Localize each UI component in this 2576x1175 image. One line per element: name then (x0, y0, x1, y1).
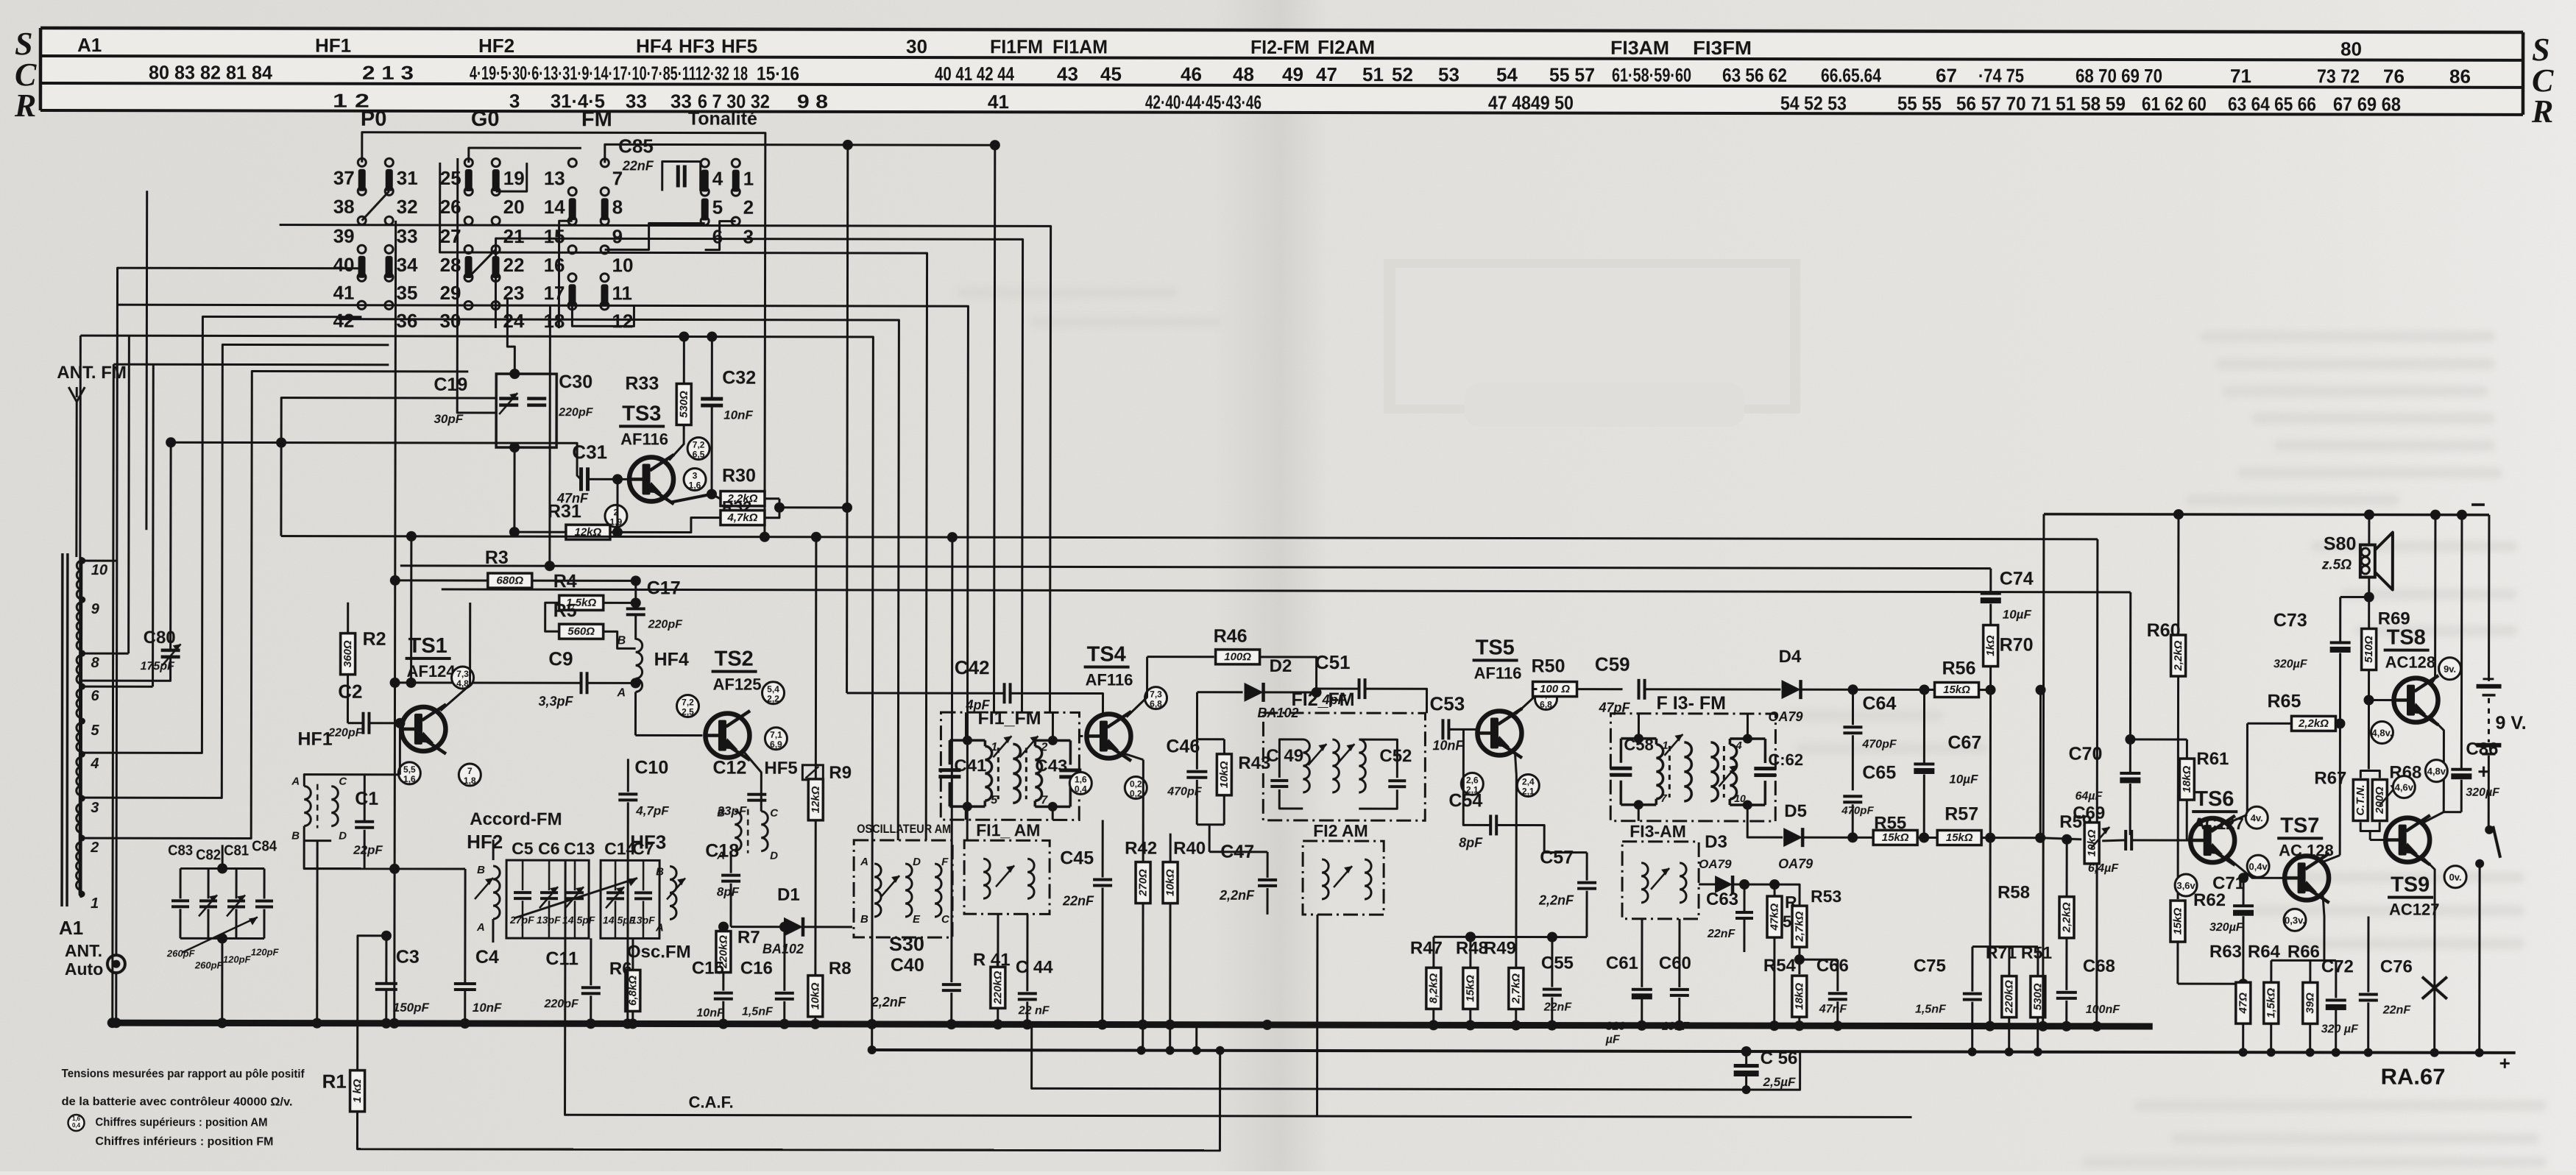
svg-text:6,4µF: 6,4µF (2088, 862, 2119, 875)
svg-text:100Ω: 100Ω (1224, 650, 1251, 663)
svg-text:2,2nF: 2,2nF (871, 995, 907, 1009)
svg-text:39Ω: 39Ω (2304, 993, 2316, 1014)
svg-text:AF116: AF116 (620, 430, 668, 448)
svg-text:10µF: 10µF (2003, 608, 2032, 622)
svg-text:z.5Ω: z.5Ω (2321, 557, 2352, 572)
svg-text:C: C (941, 913, 950, 926)
svg-text:47 48: 47 48 (1488, 91, 1531, 113)
svg-text:A: A (617, 686, 626, 699)
svg-text:HF4: HF4 (636, 35, 673, 57)
svg-text:C75: C75 (1914, 956, 1946, 976)
svg-text:4,7pF: 4,7pF (635, 803, 669, 817)
svg-text:–: – (2471, 488, 2485, 518)
svg-text:150pF: 150pF (393, 1001, 430, 1015)
svg-text:C82: C82 (196, 847, 221, 863)
svg-text:7,2: 7,2 (682, 697, 694, 708)
svg-text:22nF: 22nF (1543, 1001, 1573, 1014)
svg-text:C5: C5 (512, 839, 534, 858)
svg-text:10kΩ: 10kΩ (1164, 869, 1177, 896)
svg-text:TS7: TS7 (2280, 814, 2319, 837)
svg-text:4·19·5·30·6·13·31·9·14·17·10·7: 4·19·5·30·6·13·31·9·14·17·10·7·85·1112·3… (470, 62, 748, 85)
svg-text:B: B (291, 830, 300, 842)
svg-text:FM: FM (581, 107, 612, 131)
svg-text:C51: C51 (1315, 651, 1351, 673)
svg-text:1,6: 1,6 (1075, 774, 1087, 784)
svg-text:71: 71 (2230, 65, 2251, 87)
svg-text:2,1: 2,1 (1522, 787, 1535, 797)
svg-text:5,5: 5,5 (403, 764, 416, 775)
svg-text:C83: C83 (168, 842, 193, 859)
svg-text:C65: C65 (1862, 762, 1896, 783)
svg-text:TS3: TS3 (622, 402, 661, 425)
svg-text:43: 43 (1057, 63, 1078, 85)
svg-text:14,5pF: 14,5pF (562, 914, 595, 926)
svg-text:23: 23 (503, 282, 524, 304)
svg-text:3,3pF: 3,3pF (538, 694, 573, 709)
svg-text:R1: R1 (322, 1071, 347, 1093)
svg-text:6,8: 6,8 (1540, 700, 1552, 710)
svg-text:10: 10 (91, 562, 107, 578)
svg-text:34: 34 (397, 254, 419, 276)
svg-text:R63: R63 (2209, 942, 2242, 962)
svg-text:FI2AM: FI2AM (1317, 36, 1375, 58)
svg-text:+: + (2499, 1052, 2510, 1074)
svg-text:HF4: HF4 (654, 649, 689, 670)
svg-text:22 nF: 22 nF (1018, 1004, 1050, 1017)
svg-text:470pF: 470pF (1861, 738, 1897, 750)
svg-text:AC128: AC128 (2385, 653, 2436, 672)
svg-text:Tonalité: Tonalité (688, 109, 757, 129)
svg-text:D5: D5 (1784, 801, 1807, 821)
svg-text:R66: R66 (2287, 942, 2320, 962)
svg-text:5: 5 (91, 723, 99, 739)
svg-text:D1: D1 (777, 885, 800, 905)
svg-text:55 57: 55 57 (1549, 64, 1595, 86)
svg-text:41: 41 (988, 90, 1009, 113)
svg-text:A: A (655, 921, 664, 934)
svg-text:R8: R8 (829, 959, 852, 979)
svg-text:FI3AM: FI3AM (1610, 37, 1669, 59)
svg-text:C 56: C 56 (1761, 1048, 1798, 1068)
svg-text:C57: C57 (1540, 848, 1574, 868)
svg-text:A: A (291, 775, 300, 788)
svg-text:C41: C41 (954, 756, 986, 775)
svg-text:15kΩ: 15kΩ (2171, 907, 2184, 934)
svg-text:B: B (618, 634, 626, 647)
svg-text:D: D (913, 856, 921, 868)
svg-text:8: 8 (91, 655, 100, 671)
svg-text:61 62 60: 61 62 60 (2142, 93, 2207, 115)
svg-text:B: B (656, 865, 664, 878)
svg-text:9 8: 9 8 (797, 90, 828, 113)
svg-text:R7: R7 (737, 928, 760, 948)
svg-text:2,5: 2,5 (682, 707, 694, 717)
svg-text:63 56 62: 63 56 62 (1722, 64, 1787, 86)
svg-text:67: 67 (1936, 64, 1957, 86)
svg-text:G0: G0 (471, 107, 500, 131)
svg-text:470pF: 470pF (1841, 804, 1874, 817)
svg-text:47Ω: 47Ω (2237, 993, 2249, 1015)
svg-text:15kΩ: 15kΩ (1946, 831, 1973, 844)
svg-text:FI2-FM: FI2-FM (1250, 36, 1309, 58)
svg-text:TS6: TS6 (2195, 787, 2234, 811)
svg-text:54: 54 (1496, 63, 1518, 85)
svg-text:5,4: 5,4 (767, 684, 779, 695)
svg-text:2,2kΩ: 2,2kΩ (2298, 717, 2329, 730)
svg-text:2,7kΩ: 2,7kΩ (1510, 973, 1522, 1004)
svg-text:320µF: 320µF (2466, 787, 2500, 799)
svg-text:R54: R54 (1763, 956, 1797, 976)
svg-text:3: 3 (91, 800, 99, 816)
svg-text:C32: C32 (722, 368, 756, 388)
svg-text:4: 4 (90, 756, 99, 772)
svg-text:100nF: 100nF (2086, 1004, 2120, 1016)
svg-text:61·58·59·60: 61·58·59·60 (1612, 64, 1691, 86)
svg-text:2,2nF: 2,2nF (1538, 893, 1574, 908)
svg-text:12: 12 (612, 310, 633, 332)
svg-text:R: R (14, 88, 36, 124)
svg-text:68 70 69 70: 68 70 69 70 (2076, 65, 2162, 87)
svg-text:4,8v.: 4,8v. (2371, 728, 2392, 739)
svg-text:7: 7 (1660, 792, 1667, 805)
svg-text:B: B (860, 913, 868, 926)
svg-text:30pF: 30pF (434, 412, 463, 426)
svg-text:R33: R33 (625, 373, 659, 394)
svg-text:TS8: TS8 (2387, 626, 2426, 650)
svg-text:53: 53 (1438, 63, 1459, 85)
svg-text:15: 15 (544, 225, 565, 247)
svg-text:C84: C84 (252, 838, 277, 854)
svg-text:36: 36 (396, 310, 417, 332)
svg-text:C17: C17 (647, 578, 681, 598)
svg-text:9: 9 (91, 601, 100, 617)
svg-text:HF2: HF2 (467, 831, 503, 853)
svg-text:R30: R30 (722, 466, 756, 486)
svg-text:40: 40 (333, 254, 355, 276)
svg-text:C53: C53 (1429, 692, 1465, 714)
svg-text:AF124: AF124 (407, 662, 456, 681)
svg-text:10: 10 (1734, 792, 1746, 804)
svg-text:360Ω: 360Ω (342, 640, 354, 667)
svg-text:47: 47 (1316, 63, 1337, 85)
svg-text:48: 48 (1233, 63, 1254, 85)
svg-text:AC127: AC127 (2389, 901, 2440, 919)
svg-text:C10: C10 (634, 757, 668, 778)
svg-text:R42: R42 (1125, 839, 1157, 859)
svg-text:35: 35 (396, 282, 417, 304)
svg-text:ANT.: ANT. (65, 941, 102, 960)
svg-text:2,7kΩ: 2,7kΩ (1793, 911, 1805, 942)
svg-text:R67: R67 (2314, 768, 2346, 788)
svg-text:R57: R57 (1945, 804, 1978, 825)
svg-text:2,2kΩ: 2,2kΩ (2060, 902, 2073, 933)
svg-text:BA102: BA102 (762, 942, 804, 956)
svg-text:530Ω: 530Ω (678, 391, 690, 418)
svg-text:54 52 53: 54 52 53 (1780, 92, 1847, 114)
svg-text:11: 11 (612, 282, 632, 304)
svg-text:32: 32 (397, 196, 418, 218)
svg-text:C30: C30 (559, 372, 592, 392)
svg-text:C86: C86 (2466, 739, 2498, 759)
svg-text:4: 4 (1735, 739, 1742, 752)
svg-text:C64: C64 (1862, 693, 1896, 714)
svg-text:C 49: C 49 (1266, 746, 1303, 766)
svg-text:17: 17 (544, 282, 565, 304)
svg-text:C.T.N.: C.T.N. (2354, 784, 2367, 815)
svg-text:42: 42 (333, 310, 354, 332)
svg-text:2,2kΩ: 2,2kΩ (2172, 640, 2184, 671)
svg-text:22pF: 22pF (353, 843, 383, 857)
svg-text:10: 10 (612, 254, 634, 276)
svg-text:R70: R70 (2000, 635, 2034, 656)
svg-text:7: 7 (1041, 794, 1048, 806)
svg-text:C68: C68 (2083, 956, 2115, 976)
svg-text:73 72: 73 72 (2317, 65, 2360, 87)
svg-text:A: A (860, 856, 868, 868)
svg-text:0,4: 0,4 (72, 1122, 81, 1129)
svg-text:6,5: 6,5 (693, 450, 705, 460)
svg-text:45: 45 (1100, 63, 1122, 85)
svg-text:C11: C11 (545, 948, 578, 969)
svg-text:A: A (476, 921, 485, 934)
svg-text:2: 2 (90, 839, 99, 856)
svg-text:220pF: 220pF (544, 998, 579, 1010)
svg-text:320 µF: 320 µF (2321, 1023, 2359, 1035)
svg-text:FI3-AM: FI3-AM (1630, 822, 1686, 841)
svg-text:51: 51 (1362, 63, 1384, 85)
svg-text:C.A.F.: C.A.F. (689, 1093, 734, 1112)
svg-text:22: 22 (503, 254, 525, 276)
svg-text:10nF: 10nF (723, 408, 753, 422)
svg-text:C19: C19 (434, 374, 467, 395)
svg-text:C69: C69 (2073, 803, 2105, 823)
svg-text:8: 8 (612, 196, 623, 218)
svg-text:7: 7 (467, 766, 473, 776)
svg-text:2,4: 2,4 (1522, 777, 1535, 787)
svg-text:C54: C54 (1448, 790, 1482, 811)
svg-text:C59: C59 (1595, 653, 1630, 675)
svg-text:4,7kΩ: 4,7kΩ (726, 511, 757, 524)
svg-text:64µF: 64µF (2075, 790, 2103, 803)
svg-text:46: 46 (1181, 63, 1202, 85)
svg-text:HF3: HF3 (679, 35, 715, 57)
svg-text:4: 4 (712, 168, 723, 190)
svg-text:260pF: 260pF (194, 959, 224, 970)
svg-text:C60: C60 (1659, 954, 1691, 973)
svg-text:R53: R53 (1811, 887, 1841, 906)
svg-text:C15: C15 (692, 959, 724, 979)
svg-text:22nF: 22nF (2382, 1004, 2412, 1017)
svg-text:1: 1 (991, 741, 997, 753)
svg-text:33pF: 33pF (718, 804, 747, 818)
svg-text:C63: C63 (1706, 890, 1738, 909)
svg-text:220pF: 220pF (558, 406, 593, 419)
svg-text:C43: C43 (1035, 756, 1067, 775)
svg-text:FI1_ AM: FI1_ AM (976, 820, 1040, 839)
svg-text:C13: C13 (564, 839, 595, 858)
svg-text:C:62: C:62 (1768, 750, 1803, 769)
svg-text:B: B (477, 864, 485, 876)
svg-text:37: 37 (333, 167, 355, 189)
svg-text:0,2: 0,2 (1130, 789, 1142, 799)
svg-text:de la batterie avec contrôle: de la batterie avec contrôleur 40000 Ω/v… (62, 1096, 293, 1109)
svg-text:10kΩ: 10kΩ (809, 982, 821, 1009)
svg-text:6,8: 6,8 (1150, 699, 1162, 709)
svg-text:Chiffres supérieurs : posit: Chiffres supérieurs : position AM (95, 1116, 267, 1129)
svg-text:4,8v: 4,8v (2427, 766, 2446, 777)
svg-text:100 Ω: 100 Ω (1540, 683, 1570, 695)
svg-text:C46: C46 (1166, 736, 1200, 757)
svg-text:1,5kΩ: 1,5kΩ (2265, 988, 2277, 1018)
svg-text:8pF: 8pF (717, 885, 740, 899)
svg-text:D2: D2 (1270, 656, 1292, 676)
svg-text:C 44: C 44 (1016, 957, 1053, 977)
svg-text:1,6: 1,6 (403, 774, 416, 784)
svg-text:33: 33 (397, 225, 418, 247)
svg-text:9v.: 9v. (2444, 664, 2456, 675)
svg-text:120pF: 120pF (223, 954, 252, 965)
svg-text:R: R (2531, 93, 2553, 129)
svg-text:49 50: 49 50 (1531, 92, 1574, 114)
svg-text:F: F (941, 856, 949, 868)
svg-text:8,2kΩ: 8,2kΩ (1427, 973, 1440, 1004)
svg-text:6: 6 (91, 688, 100, 704)
svg-text:FI2 AM: FI2 AM (1313, 821, 1368, 840)
svg-text:30: 30 (906, 35, 927, 57)
svg-text:1kΩ: 1kΩ (1984, 635, 1997, 656)
svg-text:80 83 82 81 84: 80 83 82 81 84 (149, 61, 273, 83)
svg-text:R65: R65 (2267, 691, 2301, 711)
svg-text:7: 7 (612, 167, 623, 189)
svg-text:47kΩ: 47kΩ (1768, 903, 1780, 931)
svg-text:560Ω: 560Ω (567, 625, 595, 638)
svg-text:1,5nF: 1,5nF (742, 1006, 774, 1018)
svg-text:1,5nF: 1,5nF (1915, 1003, 1947, 1015)
svg-text:OA79: OA79 (1768, 709, 1802, 724)
svg-text:Accord-FM: Accord-FM (470, 809, 562, 829)
svg-text:A1: A1 (77, 34, 102, 56)
svg-text:R47: R47 (1410, 938, 1443, 958)
svg-text:HF1: HF1 (297, 729, 332, 750)
svg-text:7,1: 7,1 (770, 730, 782, 740)
svg-text:C2: C2 (338, 681, 362, 703)
svg-text:TS9: TS9 (2391, 873, 2430, 897)
svg-text:6: 6 (712, 226, 723, 248)
svg-text:49: 49 (1282, 63, 1303, 85)
svg-text:22nF: 22nF (1062, 893, 1094, 908)
svg-text:3,6v: 3,6v (2176, 880, 2195, 891)
svg-text:10nF: 10nF (473, 1001, 502, 1015)
svg-text:C73: C73 (2274, 610, 2307, 631)
svg-text:10nF: 10nF (1432, 738, 1464, 753)
svg-text:41: 41 (333, 282, 355, 304)
svg-text:4,6v: 4,6v (2395, 782, 2414, 793)
svg-text:µF: µF (1605, 1034, 1621, 1046)
svg-text:220pF: 220pF (328, 727, 363, 739)
svg-text:A1: A1 (59, 917, 83, 939)
svg-text:220pF: 220pF (648, 618, 683, 631)
svg-text:38: 38 (333, 196, 355, 218)
svg-text:10kΩ: 10kΩ (1218, 761, 1231, 788)
svg-text:1: 1 (1662, 739, 1668, 752)
svg-text:OA79: OA79 (1778, 856, 1813, 871)
svg-text:22nF: 22nF (622, 158, 654, 173)
svg-text:80: 80 (2340, 38, 2362, 60)
svg-text:56 57 70 71 51 58 59: 56 57 70 71 51 58 59 (1956, 93, 2126, 115)
svg-text:E: E (913, 913, 921, 926)
svg-text:66.65.64: 66.65.64 (1821, 64, 1881, 86)
svg-text:2 1 3: 2 1 3 (362, 62, 414, 84)
svg-text:0,3v.: 0,3v. (2285, 915, 2305, 926)
svg-text:76: 76 (2383, 65, 2405, 88)
svg-text:D: D (770, 850, 778, 862)
svg-text:C16: C16 (740, 959, 773, 979)
svg-text:220kΩ: 220kΩ (991, 970, 1004, 1004)
svg-text:39: 39 (333, 225, 355, 247)
svg-text:ANT. FM: ANT. FM (57, 363, 127, 383)
svg-text:C55: C55 (1541, 954, 1574, 973)
svg-text:2: 2 (1040, 741, 1047, 753)
svg-text:42·40·44·45·43·46: 42·40·44·45·43·46 (1145, 91, 1262, 113)
svg-text:21: 21 (503, 225, 525, 247)
svg-text:2,5µF: 2,5µF (1763, 1075, 1796, 1089)
svg-text:C18: C18 (705, 841, 739, 862)
svg-text:FI1FM: FI1FM (990, 35, 1043, 57)
svg-text:C76: C76 (2380, 957, 2413, 977)
svg-text:120pF: 120pF (251, 946, 280, 957)
svg-text:9: 9 (612, 225, 623, 247)
svg-text:Tensions mesurées par rappo: Tensions mesurées par rapport au pôle po… (62, 1068, 305, 1081)
svg-text:TS2: TS2 (715, 647, 754, 671)
svg-text:1,6: 1,6 (689, 480, 701, 491)
svg-text:220kΩ: 220kΩ (2003, 980, 2015, 1014)
svg-text:R31: R31 (548, 501, 581, 522)
svg-text:63 64 65 66: 63 64 65 66 (2228, 93, 2316, 115)
svg-text:HF3: HF3 (630, 831, 666, 853)
svg-text:86: 86 (2449, 65, 2471, 88)
svg-text:·74 75: ·74 75 (1978, 65, 2024, 87)
svg-text:R49: R49 (1484, 938, 1516, 958)
svg-text:C4: C4 (475, 947, 499, 968)
svg-text:16: 16 (544, 254, 565, 276)
svg-text:Auto: Auto (65, 959, 103, 979)
svg-text:31: 31 (397, 167, 418, 189)
svg-text:C67: C67 (1947, 733, 1981, 753)
svg-text:10nF: 10nF (696, 1007, 725, 1020)
svg-text:1,9: 1,9 (610, 516, 623, 527)
svg-text:C81: C81 (224, 842, 249, 859)
svg-text:18kΩ: 18kΩ (1793, 982, 1805, 1009)
svg-text:TS4: TS4 (1087, 642, 1126, 666)
svg-text:C: C (770, 807, 779, 820)
svg-text:C70: C70 (2068, 744, 2102, 764)
svg-text:8pF: 8pF (1459, 835, 1483, 850)
svg-text:AF116: AF116 (1086, 670, 1133, 689)
svg-text:12kΩ: 12kΩ (810, 786, 822, 813)
svg-text:7,2: 7,2 (693, 440, 705, 450)
svg-text:20: 20 (503, 196, 525, 218)
svg-text:2,6: 2,6 (1466, 775, 1479, 785)
svg-text:C9: C9 (548, 647, 573, 670)
svg-text:0,4: 0,4 (1075, 784, 1087, 794)
svg-text:55 55: 55 55 (1897, 92, 1942, 114)
svg-text:C40: C40 (891, 955, 924, 976)
svg-text:C3: C3 (396, 947, 420, 968)
svg-text:4pF: 4pF (965, 697, 990, 712)
svg-text:260pF: 260pF (166, 948, 196, 959)
svg-text:C45: C45 (1060, 848, 1094, 868)
svg-text:S30: S30 (889, 933, 924, 955)
